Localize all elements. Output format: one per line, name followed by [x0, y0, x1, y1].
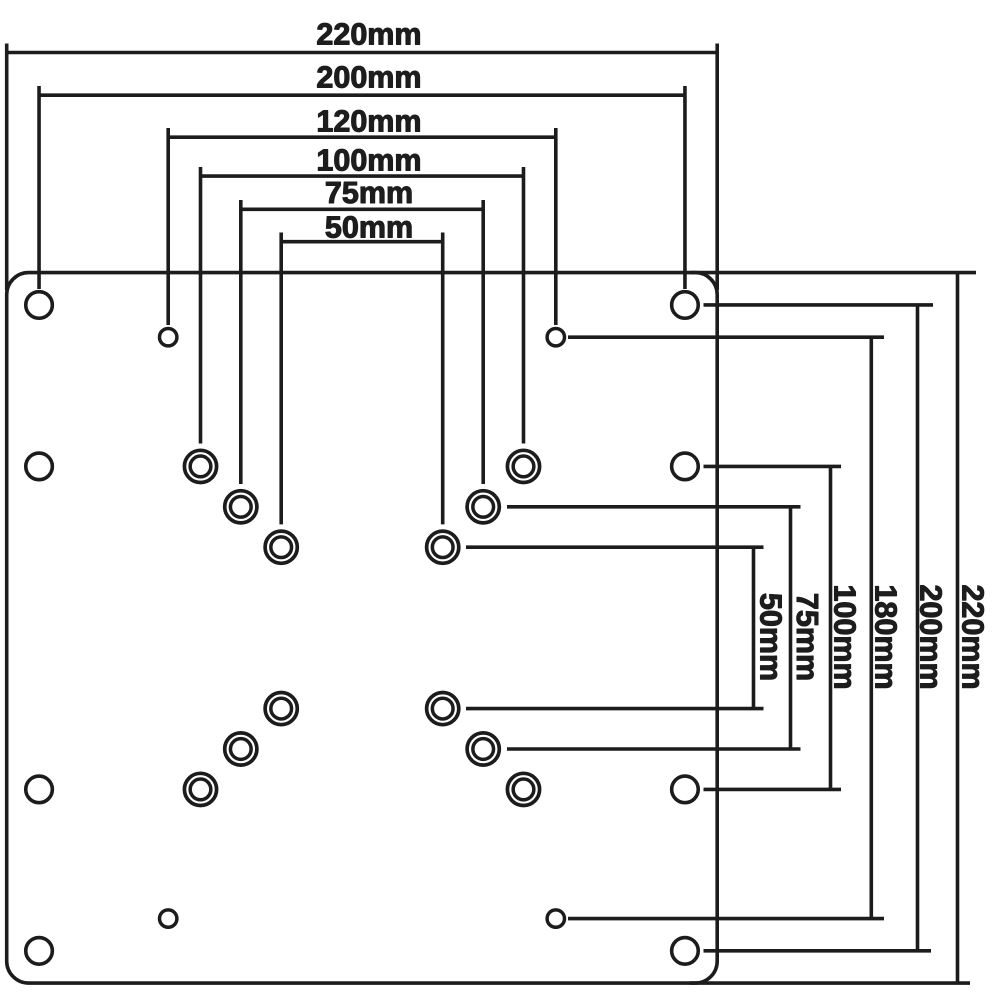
- svg-text:220mm: 220mm: [316, 18, 421, 52]
- top labels: [316, 18, 421, 245]
- svg-text:100mm: 100mm: [316, 144, 421, 178]
- plain holes r=12.6: [26, 292, 699, 964]
- right dimension lines (vertical): [466, 273, 958, 984]
- double ring holes: outer r=16.5, inner r=10.2: [184, 450, 539, 805]
- 50mm: [752, 547, 756, 708]
- 200mm: [916, 305, 920, 951]
- svg-text:220mm: 220mm: [956, 584, 990, 689]
- 100mm top dim: [201, 174, 524, 178]
- 220mm: [956, 273, 960, 984]
- 180mm: [869, 337, 873, 918]
- top dimension lines: [7, 44, 718, 525]
- 100mm: [829, 466, 833, 789]
- svg-text:120mm: 120mm: [316, 105, 421, 139]
- bottom edge extended right: [690, 981, 970, 985]
- bottom-left quadrant: [265, 693, 297, 725]
- svg-text:100mm: 100mm: [827, 584, 861, 689]
- top-left quadrant: [184, 450, 216, 482]
- plate outline: [7, 273, 718, 984]
- 220mm top dim: [7, 51, 718, 55]
- small holes r=8.8: [160, 329, 565, 928]
- top-right quadrant: [507, 450, 539, 482]
- 75mm: [789, 507, 793, 749]
- svg-text:200mm: 200mm: [914, 584, 948, 689]
- 50mm top dim: [281, 240, 443, 244]
- svg-text:200mm: 200mm: [316, 61, 421, 95]
- svg-text:50mm: 50mm: [325, 211, 413, 245]
- svg-text:50mm: 50mm: [754, 593, 788, 681]
- 200mm top dim: [39, 93, 685, 97]
- svg-text:75mm: 75mm: [790, 593, 824, 681]
- svg-text:180mm: 180mm: [869, 584, 903, 689]
- top edge extended right: [690, 271, 976, 275]
- 120mm top dim: [168, 135, 556, 139]
- 75mm top dim: [241, 208, 483, 212]
- svg-text:75mm: 75mm: [325, 176, 413, 210]
- right rotated labels: [754, 584, 990, 689]
- bottom-right quadrant: [427, 693, 459, 725]
